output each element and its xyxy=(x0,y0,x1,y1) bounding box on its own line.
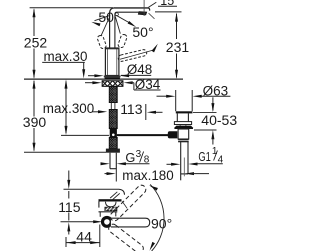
svg-text:G: G xyxy=(125,150,135,165)
svg-text:Ø34: Ø34 xyxy=(135,77,161,92)
svg-text:max.30: max.30 xyxy=(44,49,88,64)
svg-text:40-53: 40-53 xyxy=(201,112,237,128)
svg-text:50°: 50° xyxy=(98,9,119,25)
svg-text:113: 113 xyxy=(120,101,143,117)
svg-text:90°: 90° xyxy=(151,215,172,231)
svg-text:G1: G1 xyxy=(198,149,211,164)
svg-text:50°: 50° xyxy=(132,24,153,40)
svg-text:44: 44 xyxy=(76,228,92,244)
svg-text:max.180: max.180 xyxy=(122,168,173,183)
svg-text:115: 115 xyxy=(58,199,81,215)
svg-text:390: 390 xyxy=(23,114,47,130)
svg-text:max.300: max.300 xyxy=(43,101,94,116)
svg-text:231: 231 xyxy=(166,39,190,55)
